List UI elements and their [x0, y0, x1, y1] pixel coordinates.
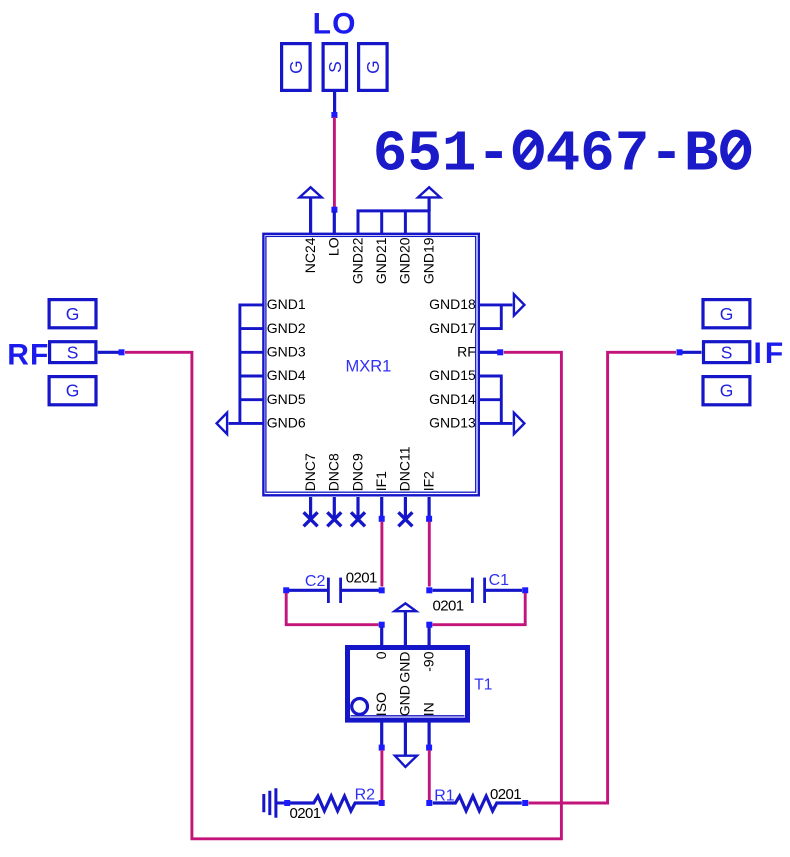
- junction square T1 pin 0: [379, 622, 385, 628]
- junction square T1 IN: [426, 745, 432, 751]
- svg-text:S: S: [67, 343, 79, 363]
- svg-text:GND1: GND1: [267, 296, 306, 312]
- capacitor C1: [433, 578, 523, 603]
- wire stub T1 pin ISO: [380, 720, 383, 745]
- svg-text:DNC11: DNC11: [397, 446, 413, 491]
- svg-text:C1: C1: [489, 572, 510, 589]
- svg-text:GND14: GND14: [429, 391, 476, 407]
- svg-text:DNC7: DNC7: [302, 453, 318, 491]
- connector IF pad G (top): [703, 300, 750, 328]
- junction square R2 left: [284, 800, 290, 806]
- junction square C2 right / IF1: [379, 587, 385, 593]
- svg-text:G: G: [66, 380, 80, 400]
- svg-text:R2: R2: [355, 786, 376, 803]
- power arrow above pin NC24: [300, 187, 322, 234]
- junction square C2 left: [283, 587, 289, 593]
- svg-text:DNC9: DNC9: [349, 453, 365, 491]
- wire net IF (magenta): [529, 352, 677, 803]
- svg-text:0201: 0201: [490, 786, 521, 803]
- wire stub T1 pin -90: [428, 627, 431, 648]
- svg-text:GND3: GND3: [267, 344, 306, 360]
- svg-text:G: G: [66, 304, 80, 324]
- junction square IF2: [426, 516, 432, 522]
- svg-text:MXR1: MXR1: [346, 358, 392, 376]
- no-connect X on pin DNC8: [327, 497, 341, 526]
- svg-text:ISO: ISO: [373, 692, 389, 716]
- junction square R2 right / ISO: [379, 800, 385, 806]
- title 651-0467-B0: [373, 122, 748, 187]
- svg-text:G: G: [720, 380, 734, 400]
- junction square C1 right: [522, 587, 528, 593]
- resistor R2: [290, 796, 379, 811]
- svg-text:DNC8: DNC8: [326, 453, 342, 491]
- connector LO pad G (right): [359, 44, 388, 91]
- connector LO pad G (left): [282, 44, 311, 91]
- junction square LO upper: [331, 112, 337, 118]
- power arrow above pin GND19: [418, 187, 440, 211]
- connector LO pad S: [323, 44, 346, 91]
- no-connect X on pin DNC9: [351, 497, 365, 526]
- wire bracket joining GND18-GND17: [480, 305, 513, 329]
- wire stub from pin IF2: [428, 497, 431, 517]
- ground arrow right of GND18: [514, 294, 525, 315]
- svg-text:R1: R1: [434, 788, 455, 805]
- svg-text:GND22: GND22: [349, 237, 365, 284]
- wire stub from LO pad S: [333, 91, 336, 113]
- svg-text:IF2: IF2: [420, 471, 436, 491]
- wire stub from MXR1 RF pin: [480, 351, 498, 354]
- svg-text:GND: GND: [397, 685, 413, 716]
- connector IF pad G (bottom): [703, 377, 750, 405]
- svg-text:C2: C2: [305, 573, 326, 590]
- svg-text:IN: IN: [420, 702, 436, 716]
- svg-text:G: G: [720, 304, 734, 324]
- svg-text:GND4: GND4: [267, 367, 306, 383]
- svg-text:GND6: GND6: [267, 415, 306, 431]
- no-connect X on pin DNC11: [398, 497, 412, 526]
- svg-text:NC24: NC24: [302, 237, 318, 273]
- svg-text:IF: IF: [754, 337, 787, 370]
- resistor R1: [433, 796, 522, 811]
- wire stub from RF pad S: [98, 351, 119, 354]
- svg-text:GND20: GND20: [397, 237, 413, 284]
- junction square MXR1 RF pin: [497, 349, 503, 355]
- wire net RF (magenta): [125, 352, 561, 839]
- junction square T1 pin -90: [426, 622, 432, 628]
- svg-text:LO: LO: [326, 237, 342, 256]
- svg-text:-90: -90: [420, 651, 436, 671]
- svg-text:651-: 651-: [373, 122, 511, 187]
- wire net ISO drop (magenta): [380, 750, 383, 800]
- wire net IF2 drop (magenta): [428, 522, 431, 587]
- junction square R1 right: [522, 800, 528, 806]
- wire stub from pin IF1: [380, 497, 383, 517]
- svg-text:RF: RF: [7, 338, 49, 371]
- svg-text:0201: 0201: [433, 598, 464, 615]
- wire stub T1 pin IN: [428, 720, 431, 745]
- transformer T1 body: [348, 648, 468, 721]
- svg-text:GND18: GND18: [429, 296, 476, 312]
- mixer IC MXR1 body (double border): [263, 234, 478, 496]
- junction square IF1: [379, 516, 385, 522]
- svg-text:T1: T1: [474, 676, 492, 693]
- ground symbol left of R2: [264, 788, 285, 817]
- junction square C1 left / IF2: [426, 587, 432, 593]
- svg-text:GND21: GND21: [373, 237, 389, 284]
- svg-text:0: 0: [373, 651, 389, 659]
- wire net IF1 drop (magenta): [380, 522, 383, 587]
- ground arrow below T1 GND: [395, 720, 417, 767]
- wire net C2 to T1 pin 0 (magenta): [286, 593, 378, 625]
- gnd bus over pins GND22-GND19 with drops: [358, 210, 429, 235]
- junction square T1 ISO: [379, 745, 385, 751]
- junction square IF pad: [677, 349, 683, 355]
- wire stub T1 pin 0: [380, 627, 383, 648]
- svg-text:0201: 0201: [346, 570, 377, 587]
- junction square RF pad: [119, 349, 125, 355]
- svg-text:G: G: [286, 60, 306, 74]
- svg-text:S: S: [721, 343, 733, 363]
- power arrow above T1 GND: [395, 603, 417, 648]
- wire net IN drop (magenta): [428, 750, 431, 800]
- wire bracket joining GND15-GND14-GND13: [480, 376, 513, 423]
- no-connect X on pin DNC7: [304, 497, 318, 526]
- ground arrow right of GND13: [514, 413, 525, 434]
- svg-text:G: G: [363, 60, 383, 74]
- wire net LO (magenta): [333, 117, 336, 208]
- svg-text:467-B: 467-B: [546, 122, 719, 187]
- svg-text:S: S: [325, 61, 345, 73]
- svg-text:RF: RF: [457, 344, 476, 360]
- wire net C1 to T1 pin -90 (magenta): [433, 593, 526, 625]
- svg-text:LO: LO: [313, 7, 357, 40]
- junction square LO lower: [331, 207, 337, 213]
- connector RF pad G (bottom): [49, 377, 96, 405]
- capacitor C2: [289, 578, 379, 603]
- wire stub from IF pad S: [681, 351, 702, 354]
- connector RF pad G (top): [49, 300, 96, 328]
- connector RF pad S: [50, 342, 96, 363]
- svg-text:GND5: GND5: [267, 391, 306, 407]
- svg-text:GND13: GND13: [429, 415, 476, 431]
- connector IF pad S: [704, 342, 750, 363]
- ground arrow left of GND6: [217, 413, 228, 434]
- wire stub to MXR1 pin LO: [333, 211, 336, 234]
- svg-text:GND: GND: [397, 652, 413, 683]
- svg-text:GND2: GND2: [267, 320, 306, 336]
- svg-text:GND19: GND19: [420, 237, 436, 284]
- svg-text:0201: 0201: [290, 805, 321, 822]
- svg-text:IF1: IF1: [373, 471, 389, 491]
- junction square R1 left / IN: [426, 800, 432, 806]
- svg-text:GND17: GND17: [429, 320, 476, 336]
- svg-text:GND15: GND15: [429, 367, 476, 383]
- wire ladder joining GND1-GND6 left pins: [229, 305, 263, 424]
